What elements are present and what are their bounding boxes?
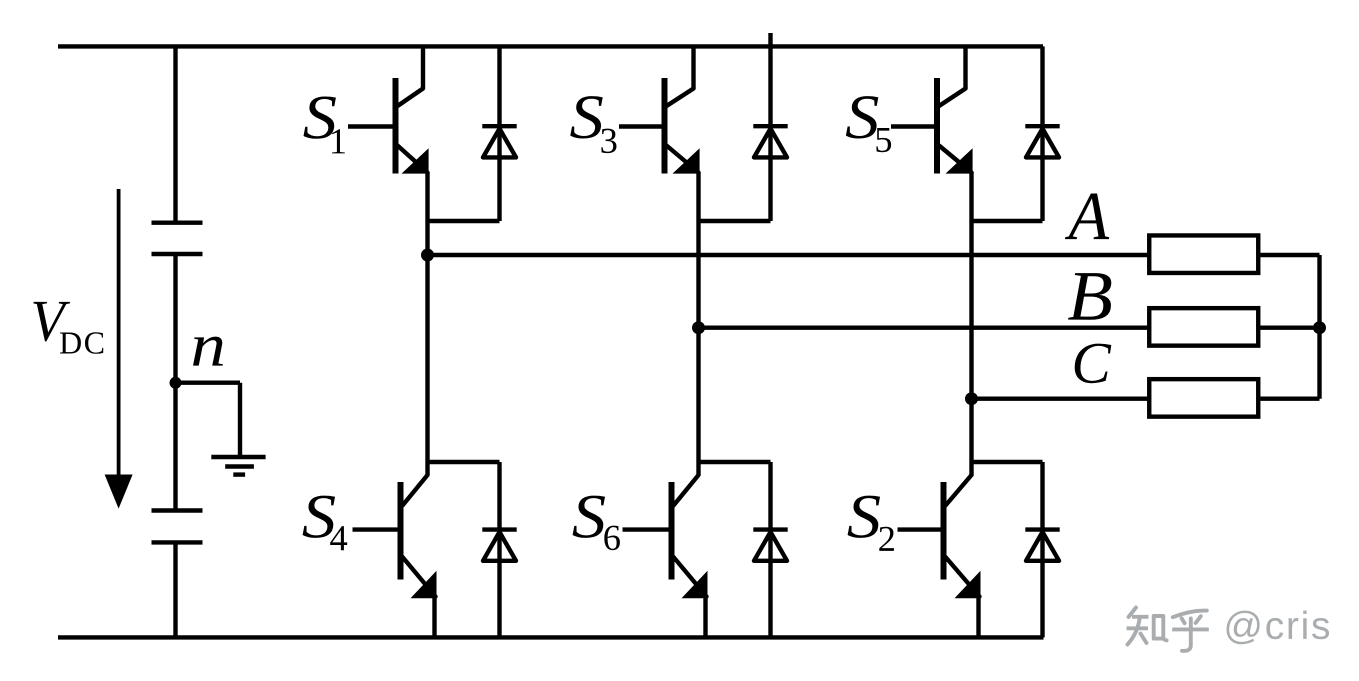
transistor S3 [619, 46, 700, 173]
VDC direction arrow [105, 189, 133, 509]
transistor S1 [348, 46, 429, 173]
capacitor C1 bottom plate [152, 252, 203, 256]
watermark: @cris [1227, 611, 1330, 645]
diode D1 [482, 46, 516, 221]
transistor S6 [623, 475, 708, 598]
wire: DC link lower segment [173, 542, 177, 637]
diode D4 [482, 462, 516, 637]
wire: phase A to right bus [1260, 253, 1319, 257]
wire: top DC bus [58, 44, 1043, 48]
label S3 : subscript 3 [601, 129, 616, 154]
wire: phase B line [699, 326, 1150, 330]
label S6 : subscript 6 [604, 526, 620, 551]
label S4 : subscript 4 [330, 526, 347, 550]
wire: right neutral bus vertical [1317, 255, 1321, 399]
wire: phase B to right bus [1260, 326, 1319, 330]
wire: ground drop vertical [238, 383, 242, 457]
wire: phase A line [428, 253, 1150, 257]
label S1 : S [304, 96, 336, 138]
transistor S5 [891, 46, 973, 173]
transistor S2 [898, 475, 981, 598]
wire: bottom DC bus [58, 635, 1044, 639]
label phase B [1068, 273, 1111, 320]
wire: leg vertical S5 emitter through node C to S2 collector [969, 172, 973, 475]
wire: S4 collector-diode connector [428, 460, 500, 464]
resistor load A [1149, 235, 1258, 273]
diode D2 [1025, 462, 1059, 637]
node C junction dot [965, 392, 978, 405]
wire: leg vertical S3 emitter through node B to S6 collector [696, 172, 700, 475]
label S5 : S [846, 96, 878, 138]
label S1 : subscript 1 [332, 129, 345, 153]
wire: S3 emitter-diode connector [699, 219, 771, 223]
transistor S4 [353, 475, 437, 598]
wire: DC link upper segment [173, 46, 177, 222]
label V_DC : V [33, 302, 70, 342]
node: neutral junction dot on right bus [1313, 321, 1326, 334]
capacitor C2 top plate [152, 508, 203, 512]
node n junction dot [170, 377, 182, 389]
diode D5 [1025, 46, 1059, 221]
wire: phase C line [972, 397, 1150, 401]
wire: S6 emitter to bottom bus [703, 597, 707, 638]
capacitor C1 top plate [152, 220, 203, 224]
resistor load C [1149, 379, 1258, 417]
wire: S5 emitter-diode connector [972, 219, 1043, 223]
wire: S4 emitter to bottom bus [432, 597, 436, 638]
label S4 : S [303, 496, 335, 538]
label S2 : subscript 2 [879, 527, 894, 551]
ground symbol [211, 457, 265, 475]
label S5 : subscript 5 [876, 128, 891, 152]
wire: S6 collector-diode connector [699, 460, 771, 464]
node A junction dot [421, 249, 434, 262]
diode D6 [753, 462, 787, 637]
wire: phase C to right bus [1260, 397, 1319, 401]
diode D3 [753, 33, 787, 221]
label phase A [1065, 194, 1109, 240]
node B junction dot [692, 321, 705, 334]
resistor load B [1149, 308, 1258, 346]
label S6 : S [573, 496, 605, 538]
label S3 : S [570, 96, 602, 138]
label V_DC : DC subscript [60, 332, 103, 354]
wire: DC link middle segment [173, 254, 177, 511]
wire: S1 emitter-diode connector [428, 219, 500, 223]
label n [193, 337, 223, 366]
label phase C [1075, 344, 1112, 384]
capacitor C2 bottom plate [152, 540, 203, 544]
wire: S2 collector-diode connector [972, 460, 1043, 464]
wire: leg vertical S1 emitter through node A to S4 collector [425, 172, 429, 475]
wire: node n horizontal [176, 381, 241, 385]
label S2 : S [848, 496, 880, 538]
wire: S2 emitter to bottom bus [976, 597, 980, 638]
watermark: Zhihu logo (知乎) [1127, 608, 1209, 651]
